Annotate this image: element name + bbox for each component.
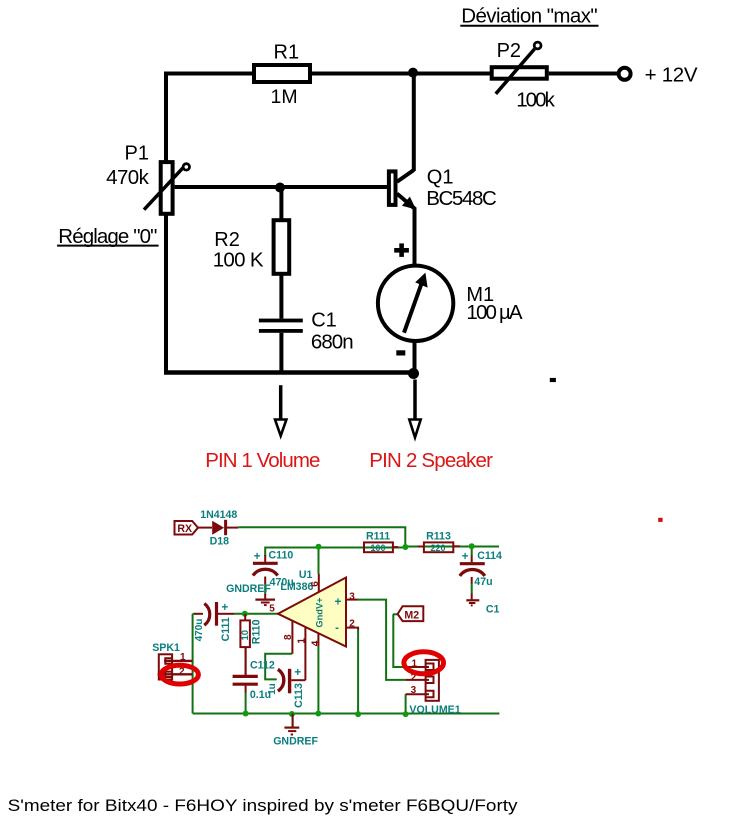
svg-text:680n: 680n — [311, 331, 354, 354]
svg-text:P1: P1 — [125, 143, 149, 165]
svg-text:R110: R110 — [250, 619, 262, 644]
svg-text:3: 3 — [349, 591, 355, 602]
svg-text:R2: R2 — [214, 229, 240, 251]
svg-text:100k: 100k — [516, 89, 555, 112]
svg-text:Réglage "0": Réglage "0" — [58, 225, 157, 248]
svg-text:D18: D18 — [210, 535, 230, 547]
svg-text:C110: C110 — [269, 550, 294, 562]
svg-text:LM386: LM386 — [280, 581, 313, 593]
svg-text:Q1: Q1 — [427, 166, 454, 188]
svg-text:470k: 470k — [106, 166, 150, 189]
svg-text:BC548C: BC548C — [426, 187, 497, 210]
svg-text:470u: 470u — [194, 619, 205, 642]
svg-text:2: 2 — [179, 667, 185, 678]
svg-text:+: + — [335, 596, 342, 608]
svg-text:C111: C111 — [220, 617, 232, 641]
svg-text:1: 1 — [296, 638, 307, 644]
svg-text:+: + — [294, 667, 301, 679]
svg-text:1N4148: 1N4148 — [200, 509, 237, 521]
svg-text:1: 1 — [180, 652, 186, 663]
svg-text:6: 6 — [310, 581, 321, 587]
svg-text:+ 12V: + 12V — [645, 64, 698, 87]
svg-text:4: 4 — [310, 640, 321, 646]
svg-text:+: + — [222, 602, 229, 614]
svg-text:+: + — [254, 551, 261, 563]
svg-text:2: 2 — [349, 618, 355, 629]
svg-text:+: + — [462, 551, 469, 563]
svg-text:R111: R111 — [366, 531, 390, 543]
svg-text:VOLUME1: VOLUME1 — [409, 704, 460, 716]
svg-text:47u: 47u — [474, 576, 492, 588]
svg-text:GNDREF: GNDREF — [226, 583, 271, 595]
svg-text:U1: U1 — [299, 569, 313, 581]
svg-text:1M: 1M — [271, 86, 298, 108]
svg-text:100: 100 — [371, 543, 386, 553]
svg-text:3: 3 — [411, 685, 417, 696]
svg-text:C113: C113 — [293, 683, 305, 708]
svg-text:P2: P2 — [497, 40, 521, 62]
svg-text:100 K: 100 K — [213, 249, 264, 272]
svg-text:8: 8 — [283, 634, 294, 640]
svg-text:S'meter for Bitx40 - F6HOY ins: S'meter for Bitx40 - F6HOY inspired by s… — [8, 796, 518, 815]
svg-text:SPK1: SPK1 — [152, 642, 180, 654]
svg-text:C1: C1 — [311, 310, 337, 332]
svg-text:RX: RX — [177, 523, 192, 535]
svg-text:PIN 1 Volume: PIN 1 Volume — [205, 449, 320, 472]
svg-text:C1: C1 — [486, 603, 500, 615]
svg-text:R1: R1 — [274, 41, 300, 63]
svg-text:GNDREF: GNDREF — [273, 736, 318, 748]
svg-text:10: 10 — [240, 630, 251, 641]
svg-text:PIN 2 Speaker: PIN 2 Speaker — [369, 449, 493, 472]
svg-text:1: 1 — [412, 658, 418, 669]
svg-text:Déviation "max": Déviation "max" — [461, 4, 598, 27]
svg-text:M2: M2 — [404, 609, 419, 621]
svg-text:C112: C112 — [250, 660, 275, 672]
svg-text:220: 220 — [431, 543, 446, 553]
svg-text:100 µA: 100 µA — [466, 301, 523, 324]
svg-text:5: 5 — [269, 604, 275, 615]
svg-text:C114: C114 — [477, 550, 502, 562]
svg-text:-: - — [335, 622, 339, 634]
svg-text:GndV+: GndV+ — [314, 597, 324, 628]
svg-text:R113: R113 — [426, 531, 451, 543]
svg-text:1u: 1u — [267, 683, 278, 695]
